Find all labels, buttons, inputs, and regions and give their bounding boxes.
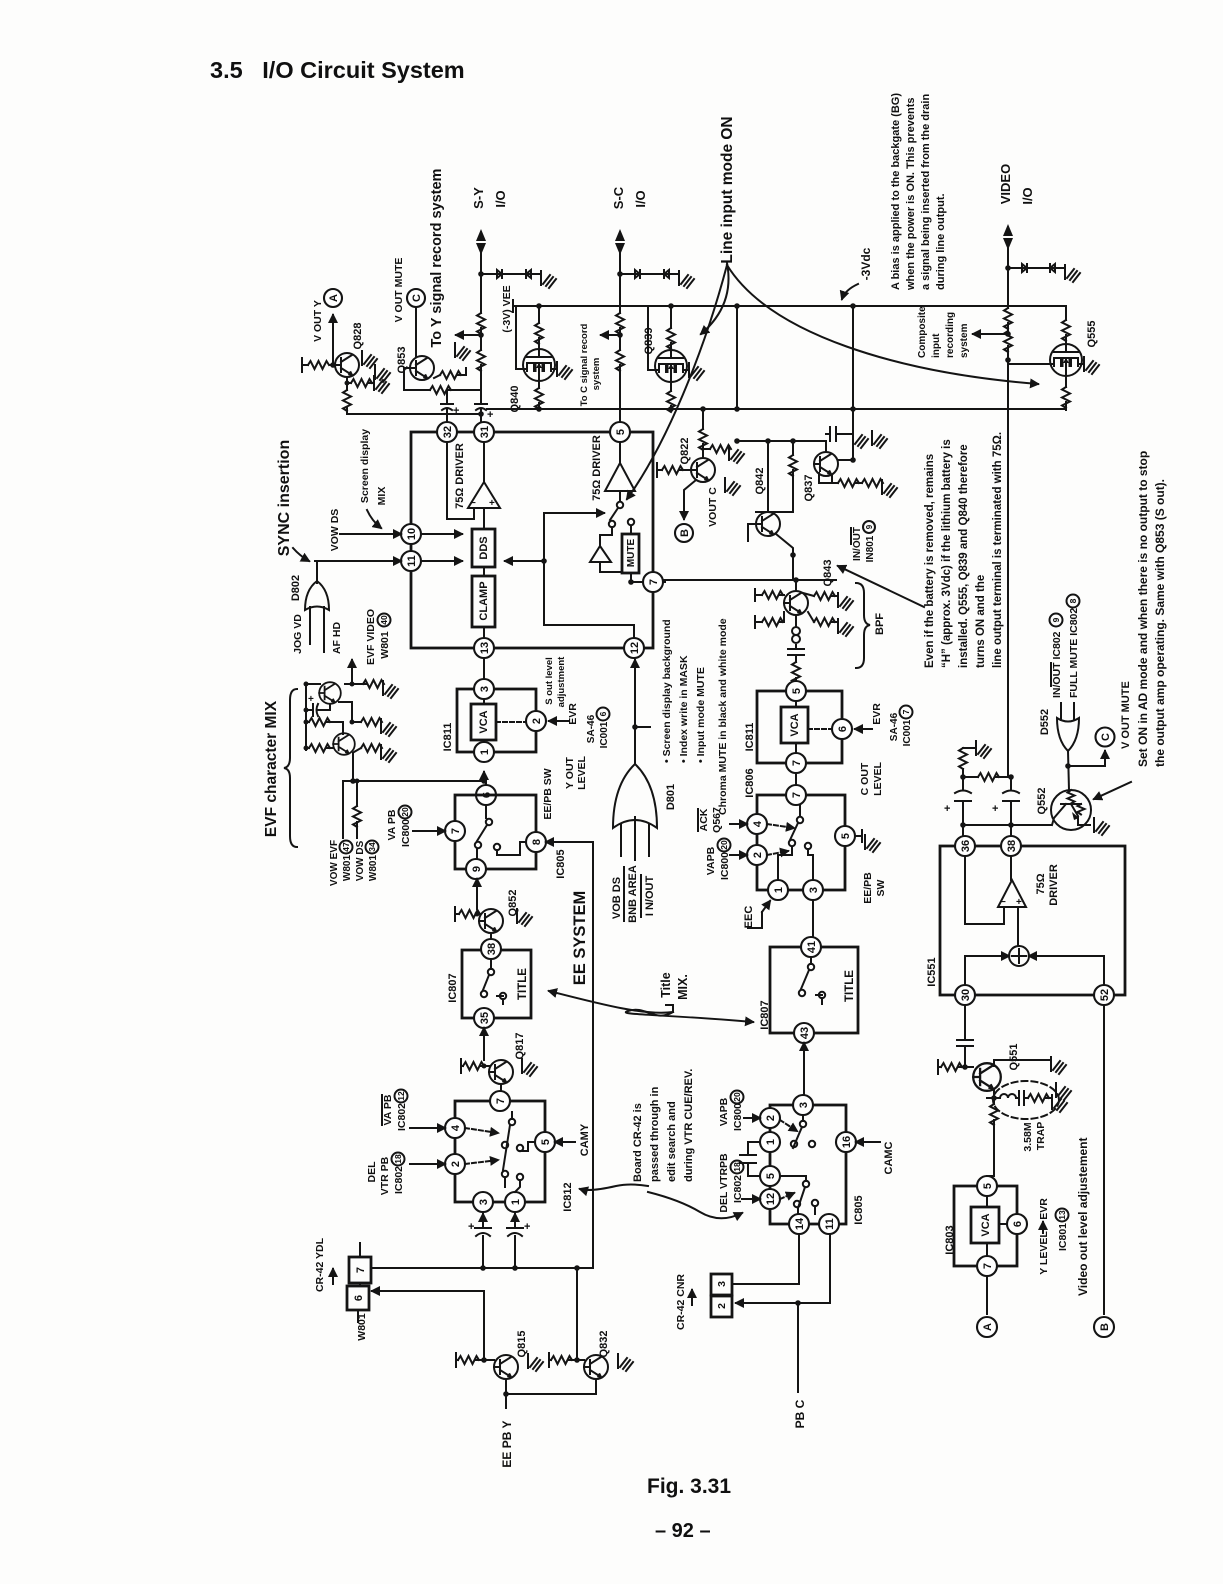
wire diode branch VIDEO bbox=[1008, 267, 1064, 269]
wire diode branch bbox=[481, 273, 540, 275]
resistor Q843 lower-left bbox=[755, 612, 784, 628]
D802 inputs bbox=[310, 607, 324, 652]
svg-text:Y OUT: Y OUT bbox=[564, 756, 576, 788]
pin 10 bbox=[401, 524, 421, 544]
resistor S-C lower bbox=[616, 350, 624, 371]
svg-text:Screen display: Screen display bbox=[359, 429, 371, 503]
arrow into box6 bbox=[372, 1290, 390, 1292]
svg-text:30: 30 bbox=[960, 989, 972, 1001]
pin 1 bbox=[505, 1192, 525, 1212]
svg-text:20: 20 bbox=[732, 1092, 742, 1102]
svg-text:I/O: I/O bbox=[633, 190, 648, 207]
svg-text:VOW DS: VOW DS bbox=[355, 840, 366, 881]
svg-text:2: 2 bbox=[752, 852, 764, 858]
wire 31 to opamp bbox=[483, 442, 485, 482]
resistor Q839 drain bbox=[670, 306, 672, 350]
wire pin3-VCA VCA-pin1 bbox=[483, 699, 485, 742]
svg-text:IN/OUT: IN/OUT bbox=[852, 527, 863, 561]
svg-text:adjustment: adjustment bbox=[556, 656, 567, 708]
node busB x671 bbox=[668, 406, 674, 412]
wire Q842 emitter down to y580 bbox=[776, 534, 793, 580]
svg-text:I/O: I/O bbox=[1020, 187, 1035, 204]
svg-text:Composite: Composite bbox=[917, 306, 928, 358]
transistor EVF lower bbox=[333, 733, 355, 755]
box 6 CR42 bbox=[347, 1286, 369, 1310]
svg-text:BNB AREA: BNB AREA bbox=[627, 865, 639, 923]
svg-text:IC800: IC800 bbox=[719, 852, 731, 880]
wire D801 output arrow to pin12 bbox=[634, 660, 636, 764]
wire Q817 to IC812 pin7 bbox=[500, 1084, 502, 1091]
pin 5 bbox=[760, 1166, 780, 1186]
svg-text:6: 6 bbox=[1012, 1221, 1024, 1227]
grounds right cluster bbox=[853, 431, 868, 448]
pin 5 bbox=[835, 826, 855, 846]
svg-text:EE PB Y: EE PB Y bbox=[500, 1420, 514, 1467]
svg-text:VCA: VCA bbox=[980, 1213, 992, 1236]
squiggly callout to IC805 bbox=[648, 1192, 742, 1218]
S-C I/O double arrow bbox=[615, 229, 625, 255]
capacitor pin3 bbox=[482, 1214, 484, 1226]
capacitor leg 38 bbox=[1003, 777, 1019, 836]
node VIDEO diodes bbox=[1005, 265, 1011, 271]
wire D802 output bbox=[316, 561, 318, 583]
ground Q852 bbox=[517, 909, 532, 926]
pin 52 bbox=[1094, 985, 1114, 1005]
svg-text:+: + bbox=[944, 803, 950, 815]
pin 11 bbox=[819, 1214, 839, 1234]
wire Q552 base row bbox=[963, 824, 1051, 826]
svg-text:7: 7 bbox=[982, 1263, 994, 1269]
ground Q552 bbox=[1094, 818, 1109, 835]
svg-text:MUTE: MUTE bbox=[626, 539, 637, 568]
svg-text:EVR: EVR bbox=[871, 703, 883, 725]
svg-text:VIDEO: VIDEO bbox=[998, 164, 1013, 204]
pin 8 bbox=[526, 832, 546, 852]
svg-text:75Ω DRIVER: 75Ω DRIVER bbox=[454, 443, 466, 509]
svg-text:31: 31 bbox=[479, 426, 491, 438]
svg-text:VOW DS: VOW DS bbox=[329, 509, 341, 552]
svg-text:5: 5 bbox=[765, 1173, 777, 1179]
wire D552 output bbox=[1068, 751, 1069, 790]
svg-text:+: + bbox=[308, 694, 314, 705]
resistor Q853 emitter right bbox=[440, 371, 461, 379]
pin 7 bbox=[786, 753, 806, 773]
IC811 right box bbox=[757, 691, 842, 763]
pin 38 bbox=[481, 939, 501, 959]
svg-text:EEC: EEC bbox=[743, 906, 755, 929]
resistor Q551 base bbox=[938, 1060, 973, 1074]
VEE terminal tick bbox=[512, 300, 514, 312]
wire C to Q853 bbox=[415, 307, 417, 356]
pin 14 bbox=[789, 1214, 809, 1234]
trap cap bbox=[1019, 1091, 1028, 1105]
resistor below Q551 bbox=[987, 1098, 994, 1176]
svg-text:CAMY: CAMY bbox=[579, 1123, 591, 1156]
pin 7 bbox=[445, 821, 465, 841]
svg-text:I/O: I/O bbox=[493, 190, 508, 207]
BPF brace bbox=[856, 583, 870, 668]
resistor Q852 base bbox=[455, 907, 479, 921]
capacitor pin1 bbox=[514, 1214, 516, 1226]
pin 13 bbox=[474, 638, 494, 658]
svg-text:18: 18 bbox=[393, 1154, 403, 1164]
MUTE box bbox=[622, 534, 639, 573]
wire Q839 gate tie bbox=[648, 306, 655, 370]
pin 1 bbox=[768, 880, 788, 900]
resistor S-Y upper bbox=[477, 313, 485, 334]
pin 6 bbox=[1007, 1214, 1027, 1234]
svg-text:+: + bbox=[468, 1221, 474, 1233]
node busB x539 bbox=[536, 406, 542, 412]
svg-text:35: 35 bbox=[479, 1012, 491, 1024]
svg-text:9: 9 bbox=[865, 524, 874, 529]
svg-text:3: 3 bbox=[479, 686, 491, 692]
svg-text:SYNC insertion: SYNC insertion bbox=[276, 440, 293, 556]
svg-text:VOUT C: VOUT C bbox=[707, 487, 719, 527]
wire Q555 gate bbox=[1008, 363, 1050, 365]
dashed VCA to 6 bbox=[808, 728, 832, 730]
wire pin11 arrow to DDS bbox=[421, 560, 462, 562]
svg-text:52: 52 bbox=[1099, 989, 1111, 1001]
svg-text:EE/PB: EE/PB bbox=[862, 872, 874, 904]
svg-text:75Ω: 75Ω bbox=[1035, 873, 1047, 894]
svg-text:– 92 –: – 92 – bbox=[655, 1520, 711, 1542]
svg-text:Q843: Q843 bbox=[822, 560, 834, 587]
node VEE Q839 bbox=[668, 303, 674, 309]
svg-text:7: 7 bbox=[901, 709, 911, 714]
svg-text:Y LEVEL: Y LEVEL bbox=[1038, 1231, 1050, 1275]
pin 5 bbox=[977, 1176, 997, 1196]
svg-text:9: 9 bbox=[1051, 617, 1061, 622]
pin 32 bbox=[437, 422, 457, 442]
dashed arrows pins 4,2 bbox=[767, 824, 794, 828]
transistor EVF upper bbox=[319, 682, 341, 704]
resistor Q555 source bbox=[1065, 376, 1067, 410]
svg-text:41: 41 bbox=[806, 941, 818, 953]
svg-text:VAPB: VAPB bbox=[718, 1097, 730, 1126]
svg-text:Q822: Q822 bbox=[679, 438, 691, 465]
svg-text:IC805: IC805 bbox=[555, 849, 567, 878]
svg-text:Q839: Q839 bbox=[643, 328, 655, 355]
mute amp triangle bbox=[590, 546, 611, 562]
wire pin7 to line y580 bbox=[663, 581, 665, 583]
wire y1291 row bbox=[390, 1291, 484, 1359]
switch EE/PB bbox=[486, 819, 492, 825]
svg-text:Q567: Q567 bbox=[711, 807, 723, 833]
arrow screen display to pin10 bbox=[367, 510, 381, 528]
arrow VAPB into pin2 bbox=[744, 1117, 760, 1119]
IC811 box bbox=[457, 689, 536, 752]
svg-text:• Input mode MUTE: • Input mode MUTE bbox=[695, 667, 707, 763]
pin 36 bbox=[955, 836, 975, 856]
svg-text:2: 2 bbox=[531, 718, 543, 724]
transistor Q817 bbox=[489, 1060, 513, 1084]
resistor base Q828 bbox=[308, 361, 329, 369]
svg-text:TRAP: TRAP bbox=[1035, 1122, 1047, 1151]
svg-text:turns ON and the: turns ON and the bbox=[975, 575, 987, 668]
svg-text:36: 36 bbox=[960, 840, 972, 852]
svg-text:Video out level adjustement: Video out level adjustement bbox=[1076, 1138, 1090, 1296]
svg-text:5: 5 bbox=[791, 688, 803, 694]
svg-text:EVF VIDEO: EVF VIDEO bbox=[365, 609, 377, 665]
svg-text:a signal being inserted from t: a signal being inserted from the drain bbox=[920, 94, 932, 290]
wire sync into pin11 bbox=[315, 560, 401, 562]
pin 4 bbox=[747, 814, 767, 834]
pin 12 bbox=[760, 1189, 780, 1209]
transistor Q853 bbox=[410, 356, 434, 380]
svg-text:18: 18 bbox=[732, 1162, 742, 1172]
svg-text:B: B bbox=[679, 529, 691, 537]
svg-text:IN/OUT IC802: IN/OUT IC802 bbox=[1051, 631, 1063, 698]
wire Q828 collector to A bbox=[332, 315, 334, 365]
transistor Q822 bbox=[691, 458, 715, 482]
vertical -3V x853 bbox=[852, 306, 854, 454]
svg-text:CAMC: CAMC bbox=[883, 1141, 895, 1174]
svg-text:Q552: Q552 bbox=[1036, 788, 1048, 815]
svg-text:SA-46: SA-46 bbox=[889, 712, 900, 741]
D801 inputs bbox=[621, 817, 649, 860]
arrow into pin2 bbox=[730, 854, 747, 856]
pin 43 bbox=[794, 1023, 814, 1043]
node A bottom bbox=[977, 1317, 997, 1337]
coil Q843 emitter bbox=[792, 615, 800, 649]
resistor Q843 lower-right bbox=[808, 612, 838, 622]
pin 30 bbox=[955, 985, 975, 1005]
opamp 75ohm right bbox=[605, 463, 635, 491]
wire EVF emitter bus bbox=[343, 753, 486, 785]
ground Q822 emitter right bbox=[725, 478, 740, 495]
wire down to IC805 pin3 bbox=[803, 1070, 805, 1095]
arrow DEL VTRPB into pin12 bbox=[742, 1198, 760, 1200]
svg-text:EE/PB SW: EE/PB SW bbox=[542, 768, 554, 819]
svg-text:12: 12 bbox=[396, 1091, 406, 1101]
wire y1268 row bbox=[371, 1267, 593, 1269]
cap+gnd at pin5 bbox=[855, 830, 862, 842]
wire Q551 collector to gnd bbox=[994, 1060, 1051, 1066]
pin 3 bbox=[473, 1192, 493, 1212]
svg-text:V OUT MUTE: V OUT MUTE bbox=[393, 258, 405, 323]
svg-text:1: 1 bbox=[479, 749, 491, 755]
protection diode 1 bbox=[497, 270, 509, 278]
svg-text:+: + bbox=[992, 803, 998, 815]
svg-text:LEVEL: LEVEL bbox=[872, 761, 884, 795]
pin 2 bbox=[526, 711, 546, 731]
pin 9 bbox=[466, 859, 486, 879]
svg-text:Chroma MUTE in black and white: Chroma MUTE in black and white mode bbox=[717, 618, 729, 815]
svg-text:20: 20 bbox=[400, 807, 410, 817]
svg-text:ACK: ACK bbox=[698, 808, 710, 831]
wire Q843 base up bbox=[795, 580, 797, 591]
svg-text:W801: W801 bbox=[368, 855, 379, 882]
capacitor in leg 31 bbox=[475, 390, 487, 422]
wire pin30 down cap bbox=[964, 1005, 966, 1068]
svg-text:+: + bbox=[453, 405, 459, 417]
svg-text:edit search and: edit search and bbox=[666, 1101, 678, 1182]
arrow -3Vdc to bus bbox=[842, 284, 858, 299]
mosfet Q840 bbox=[523, 349, 555, 381]
resistor Q822 collector bbox=[702, 409, 704, 458]
svg-text:13: 13 bbox=[479, 642, 491, 654]
svg-text:Q555: Q555 bbox=[1086, 321, 1098, 348]
svg-text:12: 12 bbox=[629, 642, 641, 654]
wire x577 down bbox=[576, 1268, 578, 1359]
svg-text:5: 5 bbox=[540, 1139, 552, 1145]
trap resistor bbox=[1028, 1094, 1049, 1102]
svg-text:during VTR CUE/REV.: during VTR CUE/REV. bbox=[683, 1069, 695, 1182]
pin 6 bbox=[476, 785, 496, 805]
pin 41 bbox=[801, 937, 821, 957]
switch TITLE2 bbox=[808, 964, 814, 970]
svg-text:• Index write in MASK: • Index write in MASK bbox=[678, 655, 690, 763]
svg-text:IC551: IC551 bbox=[926, 957, 938, 986]
mosfet Q839 bbox=[655, 350, 687, 382]
svg-text:V OUT Y: V OUT Y bbox=[312, 300, 324, 342]
wire left stub down to VOW EVF bbox=[342, 781, 344, 838]
svg-text:Fig. 3.31: Fig. 3.31 bbox=[647, 1475, 731, 1498]
svg-text:To C signal record: To C signal record bbox=[579, 323, 590, 406]
resistor Q822 base bbox=[657, 463, 691, 477]
svg-text:Q837: Q837 bbox=[803, 475, 815, 502]
svg-text:recording: recording bbox=[945, 312, 956, 358]
svg-text:IC807: IC807 bbox=[447, 973, 459, 1002]
resistor EVF right mid bbox=[352, 721, 361, 723]
wire opamp to switch bbox=[619, 491, 621, 501]
wire diode branch S-C bbox=[620, 273, 678, 275]
svg-text:6: 6 bbox=[598, 711, 608, 716]
pin 2 bbox=[760, 1108, 780, 1128]
ground Q815 bbox=[528, 1354, 543, 1371]
wire Q853 base left drop bbox=[404, 368, 430, 390]
svg-text:when the power is ON. This pre: when the power is ON. This prevents bbox=[905, 97, 917, 291]
wire 32 feedback into minus input bbox=[447, 442, 474, 519]
pin 12 bbox=[624, 638, 644, 658]
VEE bus wire bbox=[513, 305, 1066, 307]
svg-text:C OUT: C OUT bbox=[859, 762, 871, 795]
arrow into pin43 bbox=[803, 1043, 805, 1070]
callout fan line bbox=[627, 265, 727, 499]
svg-text:3.58M: 3.58M bbox=[1022, 1122, 1034, 1151]
svg-text:IC001: IC001 bbox=[599, 721, 610, 748]
svg-text:2: 2 bbox=[765, 1115, 777, 1121]
svg-text:I N/OUT: I N/OUT bbox=[644, 876, 656, 917]
pin 6 bbox=[832, 719, 852, 739]
node busB x853 bbox=[850, 406, 856, 412]
svg-text:CR-42 YDL: CR-42 YDL bbox=[314, 1237, 326, 1292]
switch contacts mute bbox=[617, 502, 623, 508]
node to-Y branch bbox=[478, 332, 484, 338]
VCA box bbox=[971, 1207, 999, 1243]
arrow Q852 to pin9 bbox=[476, 879, 478, 909]
wire y580 line bbox=[663, 579, 836, 581]
resistor EVF bottom-right bbox=[354, 748, 361, 752]
wire mute to pin7 bbox=[600, 526, 643, 582]
svg-text:-3Vdc: -3Vdc bbox=[859, 247, 873, 280]
ground Q555 bbox=[1084, 357, 1099, 374]
wire PB C bbox=[797, 1303, 799, 1392]
svg-text:13: 13 bbox=[1057, 1210, 1067, 1220]
S-Y I/O双arrow bbox=[476, 229, 486, 255]
pin 2 bbox=[445, 1154, 465, 1174]
svg-text:2: 2 bbox=[716, 1303, 728, 1309]
svg-text:3: 3 bbox=[716, 1281, 728, 1287]
svg-text:LEVEL: LEVEL bbox=[576, 755, 588, 789]
wire bottom inner to pin 12 bbox=[544, 625, 634, 638]
wire pin7 to A bbox=[986, 1276, 988, 1314]
ground Q828 right bbox=[362, 351, 377, 368]
svg-text:1: 1 bbox=[510, 1199, 522, 1205]
D552 inputs bbox=[1061, 703, 1074, 720]
svg-text:34: 34 bbox=[367, 842, 377, 852]
capacitor EVF bbox=[306, 704, 330, 716]
VCA box right bbox=[781, 707, 808, 743]
arrow EVF video up bbox=[351, 660, 353, 676]
DDS box bbox=[472, 529, 495, 567]
svg-text:EVR: EVR bbox=[1038, 1198, 1050, 1220]
svg-text:7: 7 bbox=[791, 760, 803, 766]
resistor VIDEO 2 bbox=[1004, 331, 1012, 352]
svg-text:the output amp operating. Same: the output amp operating. Same with Q853… bbox=[1153, 479, 1167, 767]
arrow composite from video line bbox=[973, 333, 1008, 335]
svg-text:IC811: IC811 bbox=[744, 723, 756, 752]
svg-text:IC802: IC802 bbox=[393, 1166, 405, 1194]
svg-text:7: 7 bbox=[791, 792, 803, 798]
wire VIDEO column lower bbox=[1008, 700, 1011, 777]
or gate D801 bbox=[613, 764, 657, 828]
pin 31 bbox=[474, 422, 494, 442]
svg-text:TITLE: TITLE bbox=[517, 968, 529, 1000]
transistor Q843 bbox=[784, 591, 808, 615]
resistor Q839 source bbox=[670, 382, 672, 410]
svg-text:+: + bbox=[524, 1221, 530, 1233]
pin 7 bbox=[977, 1256, 997, 1276]
pin 2 bbox=[747, 845, 767, 865]
svg-text:VCA: VCA bbox=[478, 710, 490, 733]
svg-text:S out level: S out level bbox=[544, 657, 555, 705]
wire VOW DS into pin10 bbox=[340, 533, 401, 535]
capacitor leg 36 bbox=[955, 791, 971, 837]
wire VEE into drain resistor bbox=[1065, 306, 1067, 344]
svg-text:4: 4 bbox=[450, 1124, 462, 1131]
resistor S-C upper bbox=[616, 313, 624, 334]
IC806 box bbox=[757, 795, 845, 890]
resistor Q840 drain bbox=[538, 306, 540, 349]
transistor Q551 bbox=[973, 1063, 1001, 1091]
svg-text:7: 7 bbox=[355, 1267, 367, 1273]
svg-text:Q832: Q832 bbox=[598, 1331, 610, 1358]
opamp IC551 bbox=[998, 880, 1026, 907]
transistor Q815 bbox=[494, 1355, 518, 1379]
or gate D552 pointing down bbox=[1057, 718, 1079, 751]
wire pin3 down to 41 bbox=[811, 900, 813, 962]
IC551 box bbox=[940, 846, 1125, 995]
svg-text:Line input mode ON: Line input mode ON bbox=[719, 116, 736, 263]
resistor Q828 emitter lower bbox=[343, 390, 351, 411]
EVF rail left bbox=[306, 684, 320, 750]
resistor Q843 upper-left bbox=[755, 589, 784, 601]
svg-text:Q551: Q551 bbox=[1008, 1044, 1020, 1071]
transistor Q552 bbox=[1051, 790, 1091, 830]
resistor to ground above node bbox=[963, 747, 974, 749]
wire to switch arrow bbox=[544, 512, 604, 514]
svg-text:3: 3 bbox=[798, 1102, 810, 1108]
capacitor C853 (polarized) in leg 32 bbox=[441, 390, 453, 422]
resistor collector to gnd bbox=[703, 448, 710, 450]
arrow CR42 up bbox=[332, 1269, 334, 1284]
svg-text:IC812: IC812 bbox=[562, 1182, 574, 1211]
node B bottom bbox=[1094, 1317, 1114, 1337]
svg-text:D801: D801 bbox=[665, 784, 677, 810]
protection diode 2 bbox=[519, 270, 531, 278]
